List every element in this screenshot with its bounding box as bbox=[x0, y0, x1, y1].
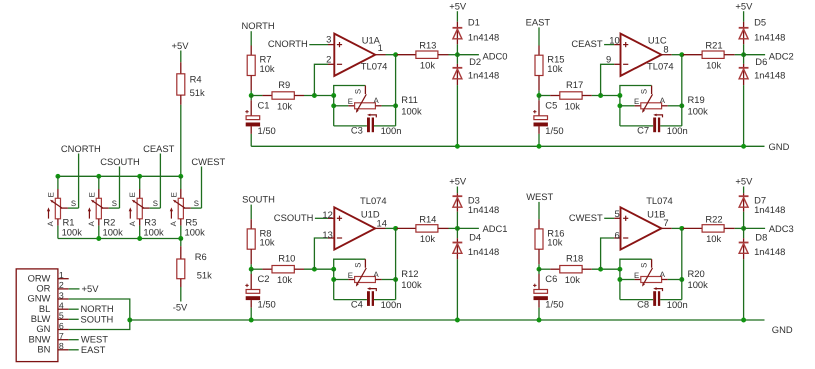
svg-text:1n4148: 1n4148 bbox=[468, 31, 499, 42]
trimmer R11 bbox=[334, 86, 422, 117]
svg-text:8: 8 bbox=[663, 43, 668, 54]
svg-text:10k: 10k bbox=[260, 63, 275, 74]
connector pin 7 (BNW) bbox=[29, 331, 69, 344]
svg-text:R18: R18 bbox=[566, 253, 583, 264]
net label text ADC2 bbox=[769, 50, 794, 61]
resistor R9 bbox=[251, 79, 334, 111]
connector pin 6 (GN) bbox=[36, 321, 68, 334]
junction dot inverting node bbox=[312, 93, 317, 98]
wire ground bracket pins 3-6 bbox=[69, 299, 130, 330]
svg-text:7: 7 bbox=[663, 217, 668, 228]
wire feedback box right bbox=[681, 55, 683, 126]
svg-text:100k: 100k bbox=[401, 105, 422, 116]
junction dots on bottom rail bbox=[96, 236, 183, 241]
svg-text:ADC3: ADC3 bbox=[769, 223, 794, 234]
svg-text:A: A bbox=[660, 270, 666, 279]
svg-text:S: S bbox=[640, 263, 649, 268]
svg-text:CWEST: CWEST bbox=[191, 156, 225, 167]
svg-text:GND: GND bbox=[772, 324, 793, 335]
resistor R8 bbox=[247, 219, 275, 269]
svg-text:1n4148: 1n4148 bbox=[754, 246, 785, 257]
op-amp U1A bbox=[334, 34, 375, 76]
wire GND rail top bbox=[251, 145, 764, 147]
wire feedback box top bbox=[334, 259, 366, 269]
resistor R14 bbox=[397, 213, 458, 244]
svg-text:8: 8 bbox=[59, 341, 64, 351]
capacitor C1 bbox=[245, 96, 275, 147]
svg-text:CWEST: CWEST bbox=[569, 212, 603, 223]
power +5V supply label bbox=[172, 40, 190, 62]
wire op-amp output bbox=[375, 227, 395, 229]
svg-text:ADC0: ADC0 bbox=[483, 50, 508, 61]
svg-text:4: 4 bbox=[59, 301, 64, 311]
capacitor C2 bbox=[245, 269, 275, 320]
net label SOUTH bbox=[242, 194, 275, 220]
svg-text:TL074: TL074 bbox=[646, 195, 673, 206]
svg-text:R13: R13 bbox=[419, 40, 436, 51]
svg-text:13: 13 bbox=[322, 229, 332, 240]
connector pin 5 (BLW) bbox=[31, 311, 69, 324]
net label GND bottom bbox=[772, 324, 793, 335]
junction dot clamp node bbox=[741, 52, 746, 57]
net label CWEST (left) bbox=[191, 156, 225, 208]
label U1C / TL074 bbox=[647, 35, 674, 72]
junction dot E-terminal bbox=[331, 277, 336, 282]
connector pin 3 (GNW) bbox=[27, 290, 68, 303]
svg-text:S: S bbox=[353, 263, 362, 268]
net label text ADC3 bbox=[769, 223, 794, 234]
net label ADC1 bbox=[457, 227, 479, 229]
pin number 7 bbox=[663, 217, 668, 228]
svg-text:EAST: EAST bbox=[81, 344, 106, 355]
svg-text:10k: 10k bbox=[420, 233, 435, 244]
svg-text:100k: 100k bbox=[401, 279, 422, 290]
junction dots GND rail bottom bbox=[249, 318, 746, 323]
op-amp U1D bbox=[334, 207, 375, 249]
resistor R7 bbox=[247, 46, 275, 96]
svg-text:9: 9 bbox=[606, 54, 611, 65]
connector pin 8 (BN) bbox=[37, 341, 68, 354]
junction dot A-terminal bbox=[679, 277, 684, 282]
capacitor C3 bbox=[334, 114, 402, 137]
net label ADC0 bbox=[457, 54, 479, 56]
pin number 13 bbox=[322, 229, 332, 240]
svg-text:1/50: 1/50 bbox=[545, 299, 563, 310]
svg-text:TL074: TL074 bbox=[360, 195, 387, 206]
svg-text:1n4148: 1n4148 bbox=[468, 70, 499, 81]
capacitor C8 bbox=[620, 287, 688, 310]
junction dot R7/R9 bbox=[249, 93, 254, 98]
svg-text:100n: 100n bbox=[667, 125, 688, 136]
connector X1 body bbox=[16, 269, 58, 362]
svg-text:ADC2: ADC2 bbox=[769, 50, 794, 61]
svg-text:1/50: 1/50 bbox=[545, 125, 563, 136]
svg-text:A: A bbox=[660, 96, 666, 105]
net label CWEST bbox=[569, 212, 621, 223]
svg-text:A: A bbox=[169, 220, 178, 226]
svg-text:1n4148: 1n4148 bbox=[754, 31, 785, 42]
svg-text:1n4148: 1n4148 bbox=[754, 204, 785, 215]
resistor R10 bbox=[251, 253, 334, 285]
op-amp U1C bbox=[621, 34, 662, 76]
svg-text:D2: D2 bbox=[469, 56, 481, 67]
svg-text:CNORTH: CNORTH bbox=[268, 38, 308, 49]
net label text ADC0 bbox=[483, 50, 508, 61]
svg-text:TL074: TL074 bbox=[647, 61, 674, 72]
svg-text:S: S bbox=[112, 199, 117, 208]
net label text ADC1 bbox=[483, 223, 508, 234]
net label SOUTH on pin 5 bbox=[69, 313, 114, 324]
diode D3 bbox=[453, 193, 500, 228]
svg-text:10k: 10k bbox=[277, 274, 292, 285]
wire feedback box top bbox=[620, 259, 652, 269]
label TL074 / U1B bbox=[646, 195, 673, 219]
svg-text:E: E bbox=[169, 192, 178, 197]
wire feedback box right bbox=[395, 228, 397, 299]
resistor R16 bbox=[535, 219, 565, 269]
svg-text:S: S bbox=[353, 89, 362, 94]
svg-text:10k: 10k bbox=[547, 63, 562, 74]
junction dot clamp node bbox=[455, 226, 460, 231]
svg-text:A: A bbox=[374, 270, 380, 279]
svg-text:C4: C4 bbox=[351, 298, 363, 309]
pin number 3 bbox=[326, 33, 331, 44]
capacitor C6 bbox=[533, 269, 563, 320]
wire GND rail bottom bbox=[130, 319, 765, 321]
junction dot A-terminal bbox=[393, 103, 398, 108]
junction dot E-terminal bbox=[331, 103, 336, 108]
junction dot output node bbox=[393, 52, 398, 57]
net label NORTH bbox=[242, 20, 275, 45]
svg-text:10k: 10k bbox=[547, 237, 562, 248]
svg-text:A: A bbox=[128, 220, 137, 226]
power +5V clamp label bbox=[735, 176, 753, 194]
svg-text:D1: D1 bbox=[468, 17, 480, 28]
svg-text:+5V: +5V bbox=[735, 0, 753, 11]
svg-text:D8: D8 bbox=[755, 232, 767, 243]
svg-text:1n4148: 1n4148 bbox=[468, 246, 499, 257]
svg-text:1/50: 1/50 bbox=[258, 299, 276, 310]
svg-text:A: A bbox=[87, 220, 96, 226]
resistor R4 bbox=[177, 62, 205, 105]
svg-text:C2: C2 bbox=[258, 273, 270, 284]
svg-text:10k: 10k bbox=[565, 274, 580, 285]
svg-text:51k: 51k bbox=[197, 269, 212, 280]
svg-text:+5V: +5V bbox=[449, 176, 467, 187]
wire feedback box left bbox=[619, 96, 621, 126]
wire op-amp output bbox=[661, 227, 681, 229]
svg-text:R9: R9 bbox=[278, 79, 290, 90]
svg-text:10k: 10k bbox=[420, 59, 435, 70]
svg-text:100k: 100k bbox=[688, 279, 709, 290]
pin number 5 bbox=[614, 208, 619, 219]
capacitor C4 bbox=[334, 287, 402, 310]
svg-text:CEAST: CEAST bbox=[143, 143, 175, 154]
svg-text:7: 7 bbox=[59, 331, 64, 341]
svg-text:100n: 100n bbox=[381, 299, 402, 310]
junction dot R16/R18 bbox=[537, 267, 542, 272]
svg-text:R17: R17 bbox=[566, 79, 583, 90]
svg-text:R11: R11 bbox=[401, 94, 418, 105]
svg-text:E: E bbox=[634, 271, 639, 280]
wire op-amp output bbox=[661, 54, 681, 56]
net label ADC3 bbox=[744, 227, 766, 229]
junction dot inverting node bbox=[598, 267, 603, 272]
svg-text:ADC1: ADC1 bbox=[483, 223, 508, 234]
svg-text:EAST: EAST bbox=[526, 16, 551, 27]
power +5V clamp label bbox=[449, 176, 467, 194]
svg-text:C6: C6 bbox=[545, 273, 557, 284]
svg-text:10: 10 bbox=[609, 35, 619, 46]
svg-text:GND: GND bbox=[769, 141, 790, 152]
svg-text:C1: C1 bbox=[258, 100, 270, 111]
svg-text:D6: D6 bbox=[755, 56, 767, 67]
svg-text:+5V: +5V bbox=[172, 40, 190, 51]
svg-text:10k: 10k bbox=[706, 59, 721, 70]
svg-text:3: 3 bbox=[59, 290, 64, 300]
net label EAST bbox=[526, 16, 551, 45]
power +5V clamp label bbox=[735, 0, 753, 21]
svg-text:D5: D5 bbox=[754, 17, 766, 28]
svg-text:R12: R12 bbox=[401, 268, 418, 279]
svg-text:S: S bbox=[640, 89, 649, 94]
net label GND top bbox=[769, 141, 790, 152]
svg-text:R21: R21 bbox=[705, 40, 722, 51]
wire to inverting input bbox=[601, 64, 621, 95]
svg-text:1n4148: 1n4148 bbox=[754, 70, 785, 81]
connector pin 2 (OR) bbox=[36, 280, 68, 293]
junction dots GND rail top bbox=[455, 144, 746, 149]
svg-text:R10: R10 bbox=[278, 253, 295, 264]
junction dot inverting node bbox=[598, 93, 603, 98]
svg-text:14: 14 bbox=[377, 218, 387, 229]
junction dot feedback left bbox=[617, 267, 622, 272]
junction dot R8/R10 bbox=[249, 267, 254, 272]
svg-text:R6: R6 bbox=[195, 251, 207, 262]
svg-text:12: 12 bbox=[322, 209, 332, 220]
junction dot output node bbox=[393, 226, 398, 231]
junction dot clamp node bbox=[741, 226, 746, 231]
svg-text:E: E bbox=[87, 192, 96, 197]
wire feedback box left bbox=[333, 96, 335, 126]
resistor R21 bbox=[683, 40, 744, 71]
svg-text:-5V: -5V bbox=[173, 301, 188, 312]
net label CNORTH bbox=[268, 38, 334, 49]
junction dot E-terminal bbox=[617, 277, 622, 282]
svg-text:3: 3 bbox=[326, 33, 331, 44]
svg-text:51k: 51k bbox=[190, 87, 205, 98]
net label +5V on pin 2 bbox=[69, 283, 99, 294]
svg-text:E: E bbox=[348, 97, 353, 106]
svg-text:+5V: +5V bbox=[449, 0, 467, 11]
resistor R13 bbox=[397, 40, 458, 71]
svg-text:TL074: TL074 bbox=[361, 61, 388, 72]
svg-text:C8: C8 bbox=[637, 298, 649, 309]
svg-text:5: 5 bbox=[614, 208, 619, 219]
svg-text:CNORTH: CNORTH bbox=[61, 143, 101, 154]
svg-text:R20: R20 bbox=[688, 268, 705, 279]
resistor R17 bbox=[539, 79, 620, 111]
svg-text:1/50: 1/50 bbox=[258, 125, 276, 136]
diode D4 bbox=[453, 228, 500, 320]
svg-text:2: 2 bbox=[59, 280, 64, 290]
junction dot output node bbox=[679, 52, 684, 57]
photo trimmer R1 bbox=[46, 176, 82, 238]
wire feedback box left bbox=[333, 269, 335, 299]
net label EAST on pin 8 bbox=[69, 344, 106, 355]
power -5V supply label bbox=[173, 301, 188, 312]
label U1A / TL074 bbox=[361, 35, 388, 72]
svg-text:100k: 100k bbox=[143, 226, 164, 237]
svg-text:A: A bbox=[46, 220, 55, 226]
svg-text:NORTH: NORTH bbox=[242, 20, 275, 31]
wire feedback box top bbox=[334, 86, 366, 96]
junction dot R15/R17 bbox=[537, 93, 542, 98]
pin number 6 bbox=[614, 229, 619, 240]
junction dot A-terminal bbox=[393, 277, 398, 282]
net label CEAST (left) bbox=[143, 143, 175, 208]
svg-text:100k: 100k bbox=[62, 226, 83, 237]
trimmer R20 bbox=[620, 259, 708, 290]
junction dot A-terminal bbox=[679, 103, 684, 108]
svg-text:1n4148: 1n4148 bbox=[468, 204, 499, 215]
svg-text:100n: 100n bbox=[381, 125, 402, 136]
wire feedback box left bbox=[619, 269, 621, 299]
op-amp U1B bbox=[621, 207, 662, 249]
svg-text:+5V: +5V bbox=[82, 283, 100, 294]
wire bottom sensor rail bbox=[58, 238, 181, 240]
net label WEST on pin 7 bbox=[69, 334, 109, 345]
svg-text:R22: R22 bbox=[705, 213, 722, 224]
net label CSOUTH bbox=[274, 212, 334, 223]
svg-text:100n: 100n bbox=[667, 299, 688, 310]
diode D2 bbox=[453, 55, 500, 147]
wire feedback box right bbox=[681, 228, 683, 299]
net label ADC2 bbox=[744, 54, 766, 56]
resistor R22 bbox=[683, 213, 744, 244]
svg-text:C7: C7 bbox=[637, 125, 649, 136]
capacitor C5 bbox=[533, 96, 563, 147]
pin number 2 bbox=[326, 53, 331, 64]
svg-text:1: 1 bbox=[378, 42, 383, 53]
junction dot E-terminal bbox=[617, 103, 622, 108]
svg-text:SOUTH: SOUTH bbox=[242, 194, 275, 205]
pin number 8 bbox=[663, 43, 668, 54]
wire feedback box top bbox=[620, 86, 652, 96]
svg-text:100k: 100k bbox=[688, 105, 709, 116]
junction dot feedback left bbox=[331, 267, 336, 272]
svg-text:SOUTH: SOUTH bbox=[81, 313, 114, 324]
svg-text:S: S bbox=[153, 199, 158, 208]
wire top sensor rail bbox=[58, 175, 181, 177]
junction dot feedback left bbox=[617, 93, 622, 98]
pin number 9 bbox=[606, 54, 611, 65]
connector pin 4 (BL) bbox=[39, 301, 69, 314]
svg-text:+5V: +5V bbox=[735, 176, 753, 187]
svg-text:R19: R19 bbox=[688, 94, 705, 105]
power +5V clamp label bbox=[449, 0, 467, 21]
svg-text:5: 5 bbox=[59, 311, 64, 321]
wire feedback box right bbox=[395, 55, 397, 126]
pin number 12 bbox=[322, 209, 332, 220]
svg-text:E: E bbox=[634, 97, 639, 106]
svg-text:D4: D4 bbox=[469, 232, 481, 243]
svg-text:BN: BN bbox=[37, 343, 50, 354]
svg-text:6: 6 bbox=[59, 321, 64, 331]
trimmer R12 bbox=[334, 259, 422, 290]
svg-text:C3: C3 bbox=[351, 125, 363, 136]
svg-text:6: 6 bbox=[614, 229, 619, 240]
photo trimmer R5 bbox=[169, 176, 205, 238]
svg-text:10k: 10k bbox=[277, 100, 292, 111]
wire R4 to sensor rail bbox=[180, 105, 182, 177]
net label CSOUTH (left) bbox=[100, 156, 140, 208]
svg-text:10k: 10k bbox=[260, 237, 275, 248]
svg-text:10k: 10k bbox=[706, 233, 721, 244]
junction dot ground bracket bbox=[127, 318, 132, 323]
wire op-amp output bbox=[375, 54, 395, 56]
net label CEAST bbox=[571, 38, 620, 49]
svg-text:100k: 100k bbox=[103, 226, 124, 237]
pin number 1 bbox=[378, 42, 383, 53]
svg-text:10k: 10k bbox=[565, 100, 580, 111]
net label WEST bbox=[526, 191, 553, 219]
wire to inverting input bbox=[601, 238, 621, 269]
svg-text:CSOUTH: CSOUTH bbox=[274, 212, 314, 223]
junction dots on top rail bbox=[55, 174, 183, 179]
svg-text:1: 1 bbox=[59, 270, 64, 280]
photo trimmer R2 bbox=[87, 176, 123, 238]
wire to inverting input bbox=[314, 238, 334, 269]
junction dot feedback left bbox=[331, 93, 336, 98]
svg-text:100k: 100k bbox=[185, 226, 206, 237]
svg-text:A: A bbox=[374, 96, 380, 105]
svg-text:WEST: WEST bbox=[526, 191, 553, 202]
svg-text:E: E bbox=[348, 271, 353, 280]
connector pin 1 (ORW) bbox=[28, 270, 69, 283]
svg-text:S: S bbox=[194, 199, 199, 208]
diode D6 bbox=[739, 55, 786, 147]
diode D8 bbox=[739, 228, 786, 320]
photo trimmer R3 bbox=[128, 176, 164, 238]
capacitor C7 bbox=[620, 114, 688, 137]
trimmer R19 bbox=[620, 86, 708, 117]
junction dot clamp node bbox=[455, 52, 460, 57]
net label CNORTH (left) bbox=[61, 143, 101, 208]
svg-text:E: E bbox=[128, 192, 137, 197]
diode D5 bbox=[739, 17, 786, 55]
pin number 14 bbox=[377, 218, 387, 229]
resistor R6 bbox=[177, 239, 212, 302]
svg-text:R14: R14 bbox=[419, 213, 436, 224]
diode D1 bbox=[453, 17, 500, 55]
pin number 10 bbox=[609, 35, 619, 46]
junction dot output node bbox=[679, 226, 684, 231]
svg-text:S: S bbox=[71, 199, 76, 208]
svg-text:E: E bbox=[46, 192, 55, 197]
svg-text:R4: R4 bbox=[190, 74, 202, 85]
diode D7 bbox=[739, 193, 786, 228]
svg-text:2: 2 bbox=[326, 53, 331, 64]
svg-text:CSOUTH: CSOUTH bbox=[100, 156, 140, 167]
resistor R15 bbox=[535, 46, 565, 96]
wire to inverting input bbox=[314, 64, 334, 95]
label TL074 / U1D bbox=[360, 195, 387, 219]
net label NORTH on pin 4 bbox=[69, 303, 114, 314]
svg-text:CEAST: CEAST bbox=[571, 38, 603, 49]
junction dot inverting node bbox=[312, 267, 317, 272]
resistor R18 bbox=[539, 253, 620, 285]
